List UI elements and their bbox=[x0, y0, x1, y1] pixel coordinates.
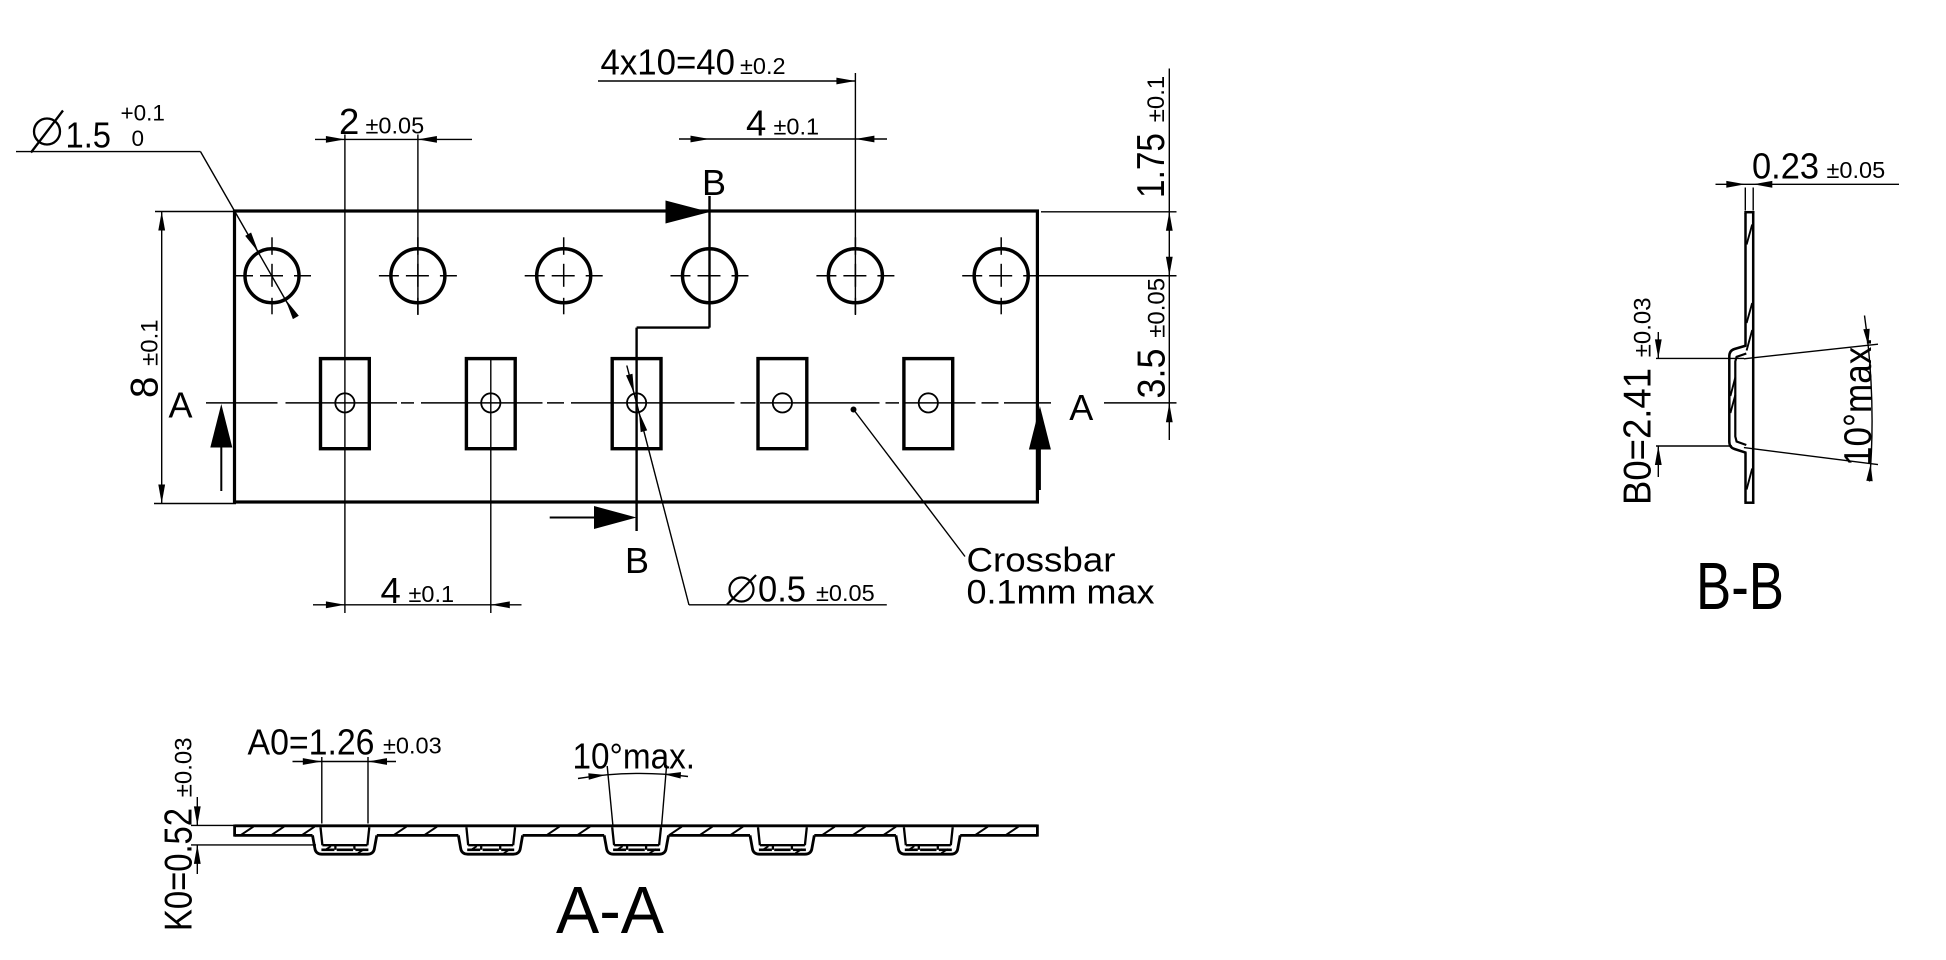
svg-text:4: 4 bbox=[746, 103, 766, 144]
dimension 0.23 extension lines bbox=[1744, 188, 1746, 211]
dimension 4 +/-0.1 bottom line and arrows bbox=[313, 604, 522, 606]
svg-text:2: 2 bbox=[339, 101, 359, 142]
extension line through pocket 2 bbox=[490, 360, 492, 613]
pocket row centerline A-A bbox=[206, 402, 1177, 404]
dimension A0=1.26 line and arrows bbox=[293, 761, 397, 763]
svg-text:4x10=40: 4x10=40 bbox=[601, 42, 736, 83]
sprocket hole 4 bbox=[671, 249, 749, 303]
pocket 4 bbox=[758, 359, 807, 449]
extension line through sprocket hole 5 bbox=[854, 73, 856, 315]
dimension 8 +/-0.1 line and arrows bbox=[161, 212, 163, 504]
dimension K0=0.52 extension lines bbox=[191, 824, 237, 826]
pocket 1 bbox=[321, 359, 370, 449]
dimension text dia 0.5 +/-0.05 bbox=[730, 578, 754, 602]
extension line through pocket 1 bbox=[344, 135, 346, 614]
sprocket hole 5 bbox=[816, 237, 894, 314]
sprocket hole 6 bbox=[962, 237, 1176, 314]
section arrow A right bbox=[1029, 406, 1051, 450]
svg-text:±0.1: ±0.1 bbox=[409, 581, 455, 607]
svg-text:1.5: 1.5 bbox=[66, 115, 112, 156]
svg-text:B-B: B-B bbox=[1696, 549, 1784, 624]
svg-text:0.5: 0.5 bbox=[758, 569, 806, 610]
sprocket hole 3 bbox=[525, 237, 603, 314]
top view: carrier tape outline bbox=[235, 211, 1038, 502]
dimension dia 1.5 +0.1/0 leader bbox=[16, 151, 201, 153]
extension line through sprocket hole 2 bbox=[417, 135, 419, 316]
svg-text:B: B bbox=[625, 540, 649, 581]
section arrow B bottom bbox=[550, 517, 596, 519]
sprocket hole 1 bbox=[233, 237, 311, 314]
svg-text:±0.05: ±0.05 bbox=[816, 580, 875, 606]
dimension 1.75 and 3.5 extension lines bbox=[1041, 211, 1177, 213]
svg-text:±0.1: ±0.1 bbox=[774, 114, 820, 140]
svg-text:0.1mm max: 0.1mm max bbox=[967, 574, 1155, 612]
crossbar leader dot bbox=[851, 407, 857, 413]
pocket 3 bbox=[612, 359, 661, 449]
section A-A pocket dip 4 bbox=[750, 827, 814, 854]
svg-text:A: A bbox=[168, 385, 192, 426]
section B-B hatching bbox=[1730, 225, 1752, 490]
svg-text:±0.03: ±0.03 bbox=[383, 733, 442, 759]
svg-text:+0.1: +0.1 bbox=[121, 101, 165, 126]
section B-B pocket bump profile bbox=[1729, 346, 1746, 453]
svg-text:0.23: 0.23 bbox=[1752, 146, 1819, 187]
section arrow A left bbox=[210, 404, 232, 448]
dimension 10 deg max B-B arc and arrows bbox=[1865, 316, 1873, 482]
dimension B0=2.41 extension lines bbox=[1656, 357, 1744, 359]
dimension dia 0.5 leader and arrows bbox=[627, 366, 689, 606]
dimension 4 +/-0.1 top line and arrows bbox=[679, 138, 887, 140]
section arrow B top bbox=[666, 201, 710, 224]
dimension K0=0.52 line and arrows bbox=[196, 797, 198, 825]
dimension B0=2.41 line and arrows bbox=[1657, 332, 1659, 358]
svg-text:A0=1.26: A0=1.26 bbox=[248, 722, 375, 763]
dimension 2 +/-0.05 line and arrows bbox=[315, 138, 472, 140]
section A-A pocket dip 1 bbox=[313, 827, 377, 854]
dimension A0=1.26 extension lines bbox=[321, 757, 323, 824]
svg-text:10°max.: 10°max. bbox=[573, 736, 696, 777]
crossbar leader line bbox=[854, 410, 966, 557]
pocket 5 bbox=[904, 359, 953, 449]
dimension 0.23 line and arrows bbox=[1716, 183, 1900, 185]
svg-text:±0.05: ±0.05 bbox=[366, 113, 425, 139]
svg-text:10°max.: 10°max. bbox=[1837, 337, 1880, 466]
svg-text:B: B bbox=[702, 162, 726, 203]
dimension line 1.75 / 3.5 with arrows bbox=[1168, 69, 1170, 441]
svg-text:A-A: A-A bbox=[556, 873, 664, 948]
section cut line B-B bbox=[708, 196, 710, 328]
pocket 2 bbox=[466, 359, 515, 449]
svg-text:4: 4 bbox=[381, 570, 401, 611]
section A-A pocket dip 2 bbox=[458, 827, 522, 854]
section A-A pocket dip 5 bbox=[896, 827, 960, 854]
section B-B tape strip profile bbox=[1744, 211, 1754, 504]
dimension 4x10=40 +/-0.2 line and arrow bbox=[598, 80, 855, 82]
section A-A pocket dip 3 bbox=[604, 827, 668, 854]
sprocket hole 2 bbox=[379, 237, 457, 314]
svg-text:0: 0 bbox=[132, 126, 145, 151]
dimension 10 deg max A-A extension lines bbox=[607, 766, 613, 826]
dimension 10 deg max B-B extension lines bbox=[1744, 344, 1878, 359]
svg-text:±0.2: ±0.2 bbox=[740, 53, 786, 79]
section A-A hatching bbox=[241, 827, 1018, 854]
svg-text:A: A bbox=[1069, 387, 1093, 428]
svg-text:±0.05: ±0.05 bbox=[1827, 157, 1886, 183]
dimension text dia 1.5 +0.1/0 bbox=[34, 119, 60, 145]
dimension 10 deg max A-A arc and arrows bbox=[578, 773, 688, 778]
dimension 8 +/-0.1 extension lines bbox=[155, 211, 236, 213]
section A-A tape strip profile bbox=[235, 825, 1038, 837]
